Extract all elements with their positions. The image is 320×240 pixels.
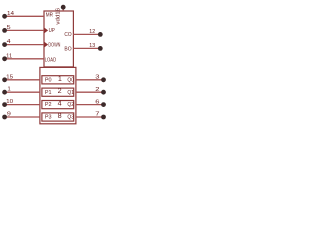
wire pin 16 vdd top stub: [62, 7, 64, 11]
wire pin 11 LOAD: [4, 58, 44, 60]
wire pin 9 P3: [4, 116, 40, 118]
svg-text:14: 14: [7, 11, 14, 17]
svg-text:3: 3: [95, 75, 99, 81]
junction dot pin 3: [101, 77, 106, 82]
wire pin 6 Q2: [76, 104, 104, 106]
junction dot pin 15: [2, 77, 7, 82]
svg-text:2: 2: [95, 87, 99, 93]
register cell box P1/Q1: [42, 88, 74, 96]
register cell box P2/Q2: [42, 101, 74, 109]
svg-text:Q1: Q1: [67, 90, 74, 96]
junction dot pin 13: [98, 46, 103, 51]
wire pin 3 Q0: [76, 79, 104, 81]
junction dot pin 10: [2, 102, 7, 107]
junction dot pin 6: [101, 102, 106, 107]
svg-text:DOWN: DOWN: [48, 42, 60, 48]
svg-text:1: 1: [58, 74, 62, 83]
wire pin 7 Q3: [76, 116, 104, 118]
svg-text:11: 11: [6, 53, 12, 59]
svg-text:MR: MR: [46, 13, 53, 19]
svg-text:BO: BO: [64, 46, 72, 52]
svg-text:10: 10: [6, 99, 13, 105]
svg-text:P0: P0: [45, 77, 52, 83]
svg-text:4: 4: [58, 99, 62, 108]
wire pin 15 P0: [4, 79, 40, 81]
junction dot pin 11: [2, 56, 7, 61]
svg-text:9: 9: [7, 112, 11, 118]
counter IC U1 upper control block body: [44, 11, 73, 67]
svg-text:2: 2: [58, 86, 62, 95]
svg-text:13: 13: [89, 43, 95, 49]
junction dot pin 5: [2, 28, 7, 33]
wire pin 5 UP: [4, 29, 44, 31]
wire pin 4 DOWN: [4, 44, 44, 46]
junction dot pin 12: [98, 32, 103, 37]
register cell box P0/Q0: [42, 76, 74, 84]
svg-text:P2: P2: [45, 102, 52, 108]
svg-text:vdd16: vdd16: [55, 8, 61, 25]
wire pin 1 P1: [4, 91, 40, 93]
svg-text:8: 8: [58, 111, 62, 120]
junction dot pin 16 vdd: [61, 5, 66, 10]
junction dot pin 2: [101, 90, 106, 95]
svg-text:6: 6: [95, 99, 99, 105]
svg-text:1: 1: [7, 87, 10, 93]
junction dot pin 4: [2, 42, 7, 47]
svg-text:CO: CO: [64, 32, 72, 38]
svg-text:P3: P3: [45, 115, 52, 121]
junction dot pin 14: [2, 14, 7, 19]
wire pin 13 BO: [73, 47, 100, 49]
svg-text:Q3: Q3: [67, 115, 74, 121]
U1 lower register block outline: [40, 67, 76, 123]
wire pin 10 P2: [4, 104, 40, 106]
svg-text:7: 7: [95, 112, 99, 118]
svg-text:UP: UP: [49, 28, 55, 34]
wire pin 12 CO: [73, 33, 100, 35]
register cell box P3/Q3: [42, 113, 74, 121]
junction dot pin 7: [101, 115, 106, 120]
svg-text:12: 12: [89, 29, 95, 35]
wire pin 14 MR: [4, 15, 44, 17]
junction dot pin 9: [2, 115, 7, 120]
svg-text:4: 4: [7, 39, 11, 45]
junction dot pin 1: [2, 90, 7, 95]
clock chevron DOWN pin: [44, 42, 48, 48]
clock chevron UP pin: [44, 28, 48, 34]
svg-text:LOAD: LOAD: [45, 58, 56, 64]
svg-text:Q0: Q0: [67, 77, 74, 83]
svg-text:15: 15: [6, 74, 13, 80]
svg-text:P1: P1: [45, 90, 52, 96]
svg-text:Q2: Q2: [67, 102, 74, 108]
svg-text:5: 5: [7, 25, 11, 31]
wire pin 2 Q1: [76, 91, 104, 93]
